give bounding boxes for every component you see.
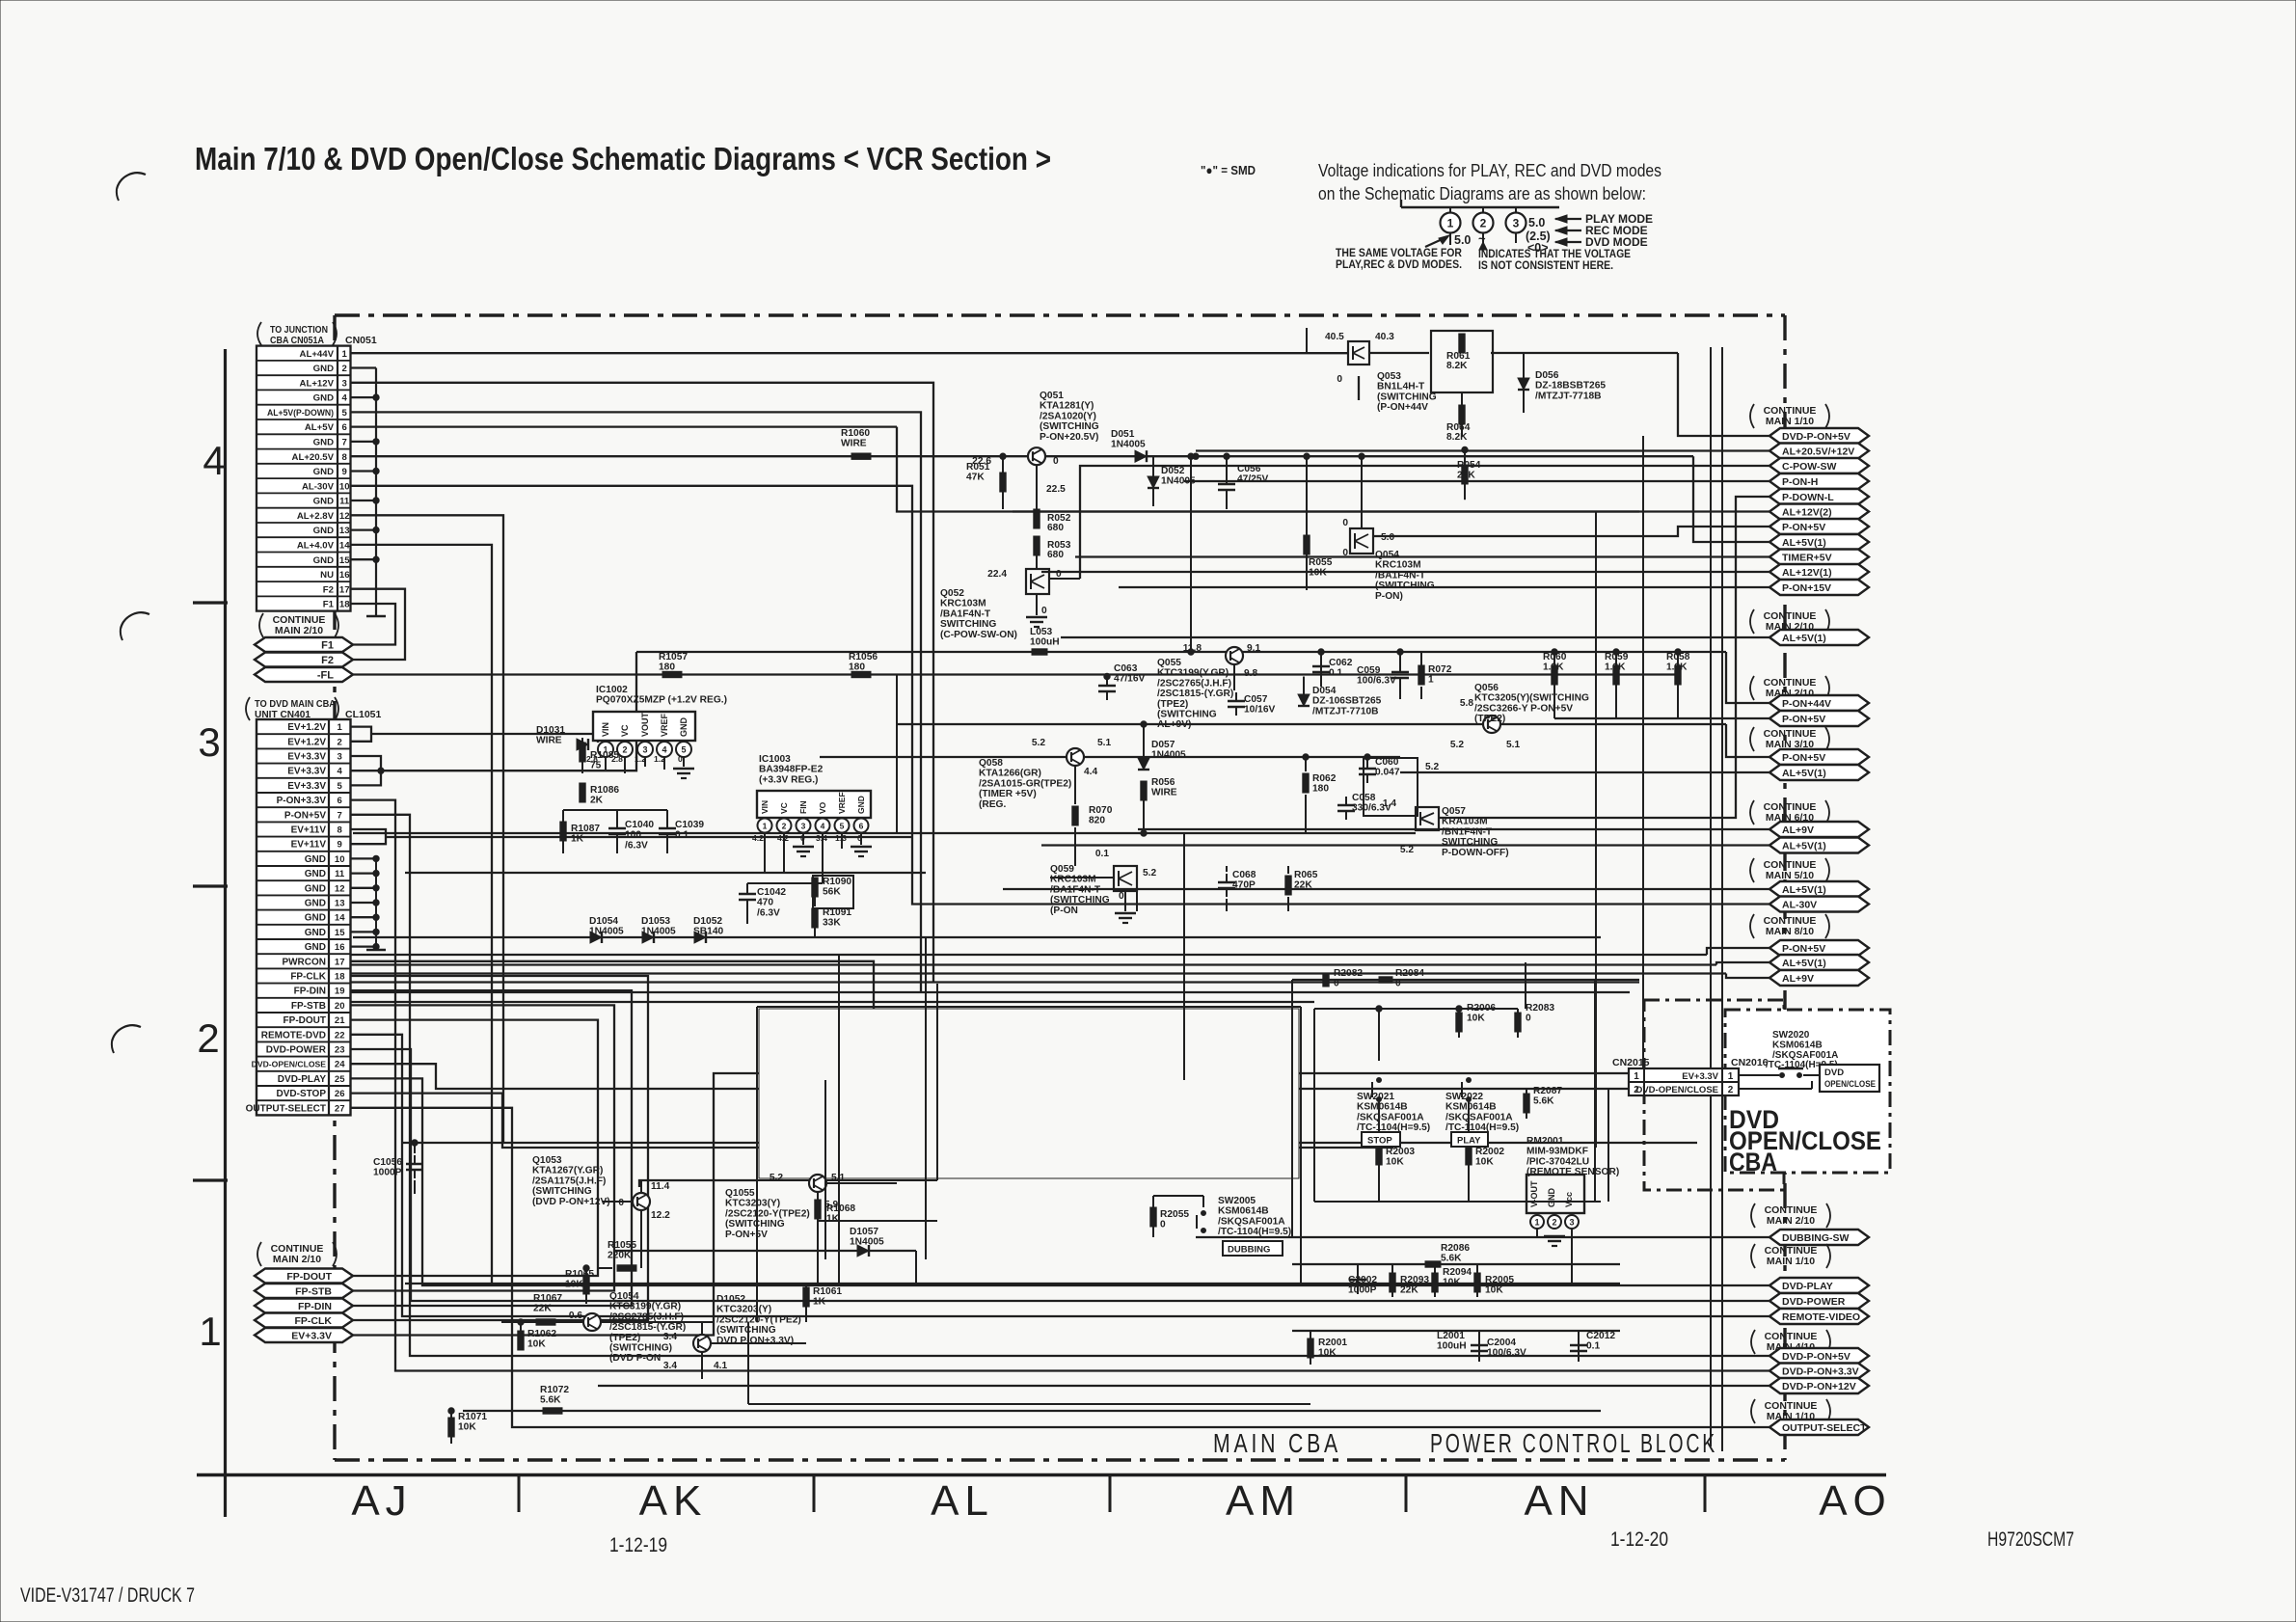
- svg-text:R1091: R1091: [823, 907, 851, 918]
- svg-text:3: 3: [1513, 217, 1520, 230]
- svg-text:22.5: 22.5: [1046, 484, 1066, 495]
- svg-text:/SKQSAF001A: /SKQSAF001A: [1357, 1112, 1424, 1122]
- svg-text:PLAY: PLAY: [1457, 1136, 1481, 1147]
- svg-text:KRA103M: KRA103M: [1442, 817, 1488, 827]
- svg-text:CBA: CBA: [1729, 1148, 1777, 1176]
- svg-text:C1040: C1040: [625, 820, 654, 830]
- svg-text:5.0: 5.0: [1454, 233, 1471, 247]
- svg-text:5: 5: [342, 408, 348, 419]
- svg-text:GND: GND: [313, 555, 334, 566]
- svg-text:1N4005: 1N4005: [1111, 440, 1146, 450]
- svg-text:C056: C056: [1237, 464, 1261, 474]
- svg-text:SW2021: SW2021: [1357, 1092, 1394, 1102]
- svg-text:AL+4.0V: AL+4.0V: [297, 541, 335, 552]
- svg-text:GND: GND: [305, 913, 326, 924]
- svg-text:OUTPUT-SELECT: OUTPUT-SELECT: [246, 1103, 326, 1114]
- svg-text:Main 7/10 & DVD Open/Close Sch: Main 7/10 & DVD Open/Close Schematic Dia…: [195, 141, 1051, 176]
- svg-text:8.2K: 8.2K: [1446, 432, 1468, 443]
- svg-text:AJ: AJ: [351, 1477, 412, 1525]
- svg-text:27: 27: [335, 1103, 345, 1114]
- svg-text:AL+5V: AL+5V: [305, 422, 335, 433]
- svg-text:C058: C058: [1352, 793, 1376, 803]
- svg-text:1K: 1K: [826, 1214, 840, 1225]
- svg-text:12.2: 12.2: [651, 1210, 670, 1221]
- svg-text:5.2: 5.2: [1425, 762, 1439, 772]
- svg-text:DVD-P-ON+3.3V: DVD-P-ON+3.3V: [1782, 1366, 1859, 1378]
- svg-text:6: 6: [338, 796, 342, 806]
- svg-text:820: 820: [1089, 816, 1105, 826]
- svg-text:EV+3.3V: EV+3.3V: [287, 752, 326, 763]
- svg-text:P-ON): P-ON): [1375, 591, 1403, 602]
- svg-text:KSM0614B: KSM0614B: [1772, 1041, 1823, 1051]
- svg-text:DVD-POWER: DVD-POWER: [1782, 1296, 1846, 1308]
- svg-text:56K: 56K: [823, 887, 841, 898]
- svg-text:1N4005: 1N4005: [641, 927, 676, 937]
- svg-text:1.2K: 1.2K: [1605, 662, 1626, 673]
- svg-text:AL: AL: [931, 1477, 994, 1525]
- svg-text:MAIN CBA: MAIN CBA: [1213, 1428, 1341, 1458]
- svg-text:14: 14: [339, 541, 350, 552]
- svg-text:R1057: R1057: [659, 652, 688, 662]
- svg-text:P-ON+5V: P-ON+5V: [1782, 943, 1825, 955]
- svg-text:9.8: 9.8: [1244, 668, 1257, 679]
- svg-text:(DVD P-ON: (DVD P-ON: [609, 1353, 661, 1364]
- svg-text:AL+2.8V: AL+2.8V: [297, 511, 335, 522]
- svg-text:6: 6: [859, 822, 864, 831]
- svg-text:GND: GND: [313, 497, 334, 507]
- svg-text:5.6K: 5.6K: [1533, 1096, 1554, 1107]
- svg-text:16: 16: [339, 570, 350, 581]
- svg-text:6: 6: [342, 422, 347, 433]
- svg-text:P-ON+5V: P-ON+5V: [725, 1230, 768, 1240]
- svg-text:1000P: 1000P: [1348, 1285, 1377, 1296]
- svg-text:100uH: 100uH: [1437, 1341, 1467, 1352]
- svg-text:R1060: R1060: [841, 428, 870, 439]
- svg-text:KRC103M: KRC103M: [940, 599, 986, 609]
- svg-text:WIRE: WIRE: [841, 439, 867, 449]
- svg-text:R1061: R1061: [813, 1286, 842, 1297]
- svg-text:GND: GND: [313, 393, 334, 404]
- svg-text:KTC3205(Y)(SWITCHING: KTC3205(Y)(SWITCHING: [1474, 693, 1589, 704]
- svg-text:5.2: 5.2: [1450, 740, 1464, 750]
- svg-text:470: 470: [757, 898, 773, 908]
- svg-text:VC: VC: [620, 724, 630, 737]
- svg-text:AL+5V(1): AL+5V(1): [1782, 884, 1826, 896]
- svg-text:3.4: 3.4: [663, 1332, 677, 1342]
- svg-text:Q055: Q055: [1157, 658, 1181, 668]
- svg-text:AL+9V: AL+9V: [1782, 973, 1814, 985]
- svg-text:/TC-1104(H=9.5): /TC-1104(H=9.5): [1218, 1227, 1291, 1237]
- svg-text:KRC103M: KRC103M: [1375, 560, 1421, 571]
- svg-text:R055: R055: [1309, 557, 1333, 568]
- svg-text:GND: GND: [305, 883, 326, 894]
- svg-text:P-ON+5V: P-ON+5V: [1782, 714, 1825, 725]
- svg-text:4: 4: [821, 822, 825, 831]
- svg-text:(REG.: (REG.: [979, 799, 1006, 810]
- svg-text:REMOTE-DVD: REMOTE-DVD: [261, 1030, 326, 1041]
- svg-text:DVD-PLAY: DVD-PLAY: [1782, 1281, 1833, 1292]
- svg-text:Q056: Q056: [1474, 683, 1499, 693]
- svg-text:7: 7: [338, 810, 342, 821]
- svg-text:47/16V: 47/16V: [1114, 674, 1145, 685]
- svg-text:R1086: R1086: [590, 785, 619, 796]
- svg-text:R2083: R2083: [1526, 1003, 1554, 1014]
- svg-text:IC1003: IC1003: [759, 754, 791, 765]
- svg-text:R065: R065: [1294, 870, 1318, 880]
- svg-text:SW2022: SW2022: [1445, 1092, 1483, 1102]
- svg-text:100: 100: [625, 830, 641, 841]
- svg-text:FIN: FIN: [798, 800, 808, 814]
- svg-text:P-ON-H: P-ON-H: [1782, 476, 1818, 488]
- svg-text:9.1: 9.1: [1247, 643, 1260, 654]
- svg-text:EV+3.3V: EV+3.3V: [1682, 1071, 1718, 1082]
- svg-text:KTC3203(Y): KTC3203(Y): [716, 1305, 771, 1315]
- svg-text:0: 0: [1119, 891, 1124, 902]
- svg-text:/2SC2785(J.H.F): /2SC2785(J.H.F): [609, 1311, 684, 1322]
- svg-text:5: 5: [681, 745, 686, 755]
- svg-text:1000P: 1000P: [373, 1168, 402, 1178]
- svg-text:SW2020: SW2020: [1772, 1030, 1810, 1041]
- svg-text:D052: D052: [1161, 466, 1185, 476]
- svg-text:BA3948FP-E2: BA3948FP-E2: [759, 765, 824, 775]
- svg-text:(C-POW-SW-ON): (C-POW-SW-ON): [940, 630, 1017, 640]
- svg-text:AL+5V(1): AL+5V(1): [1782, 768, 1826, 779]
- svg-text:F1: F1: [321, 640, 334, 652]
- svg-text:26: 26: [335, 1089, 345, 1099]
- svg-text:1: 1: [338, 722, 343, 733]
- svg-text:H9720SCM7: H9720SCM7: [1987, 1528, 2074, 1551]
- svg-text:/2SA1175(J.H.F): /2SA1175(J.H.F): [532, 1176, 606, 1186]
- svg-text:0: 0: [1342, 548, 1348, 558]
- svg-text:C2004: C2004: [1487, 1338, 1516, 1348]
- svg-text:AL+12V(2): AL+12V(2): [1782, 507, 1832, 519]
- svg-text:DUBBING: DUBBING: [1228, 1245, 1270, 1256]
- svg-text:47K: 47K: [966, 473, 985, 483]
- svg-text:AL-30V: AL-30V: [302, 481, 335, 492]
- svg-text:5.6K: 5.6K: [1441, 1254, 1462, 1264]
- svg-text:R1056: R1056: [849, 652, 878, 662]
- svg-text:DVD: DVD: [1824, 1068, 1844, 1078]
- svg-text:DVD-OPEN/CLOSE: DVD-OPEN/CLOSE: [252, 1060, 327, 1069]
- svg-text:0.1: 0.1: [1329, 668, 1342, 679]
- svg-text:11: 11: [339, 497, 350, 507]
- svg-text:WIRE: WIRE: [1151, 788, 1177, 798]
- svg-text:0: 0: [1342, 518, 1348, 528]
- svg-text:10K: 10K: [1485, 1285, 1503, 1296]
- svg-text:-FL: -FL: [317, 670, 334, 682]
- svg-text:L2001: L2001: [1437, 1331, 1465, 1341]
- svg-text:8.2K: 8.2K: [1446, 361, 1468, 371]
- svg-text:R1090: R1090: [823, 877, 851, 887]
- svg-text:FP-STB: FP-STB: [291, 1001, 326, 1012]
- svg-text:OUTPUT-SELECT: OUTPUT-SELECT: [1782, 1422, 1867, 1434]
- svg-text:25: 25: [335, 1074, 345, 1085]
- svg-text:P-ON+44V: P-ON+44V: [1782, 698, 1831, 710]
- svg-text:KTA1266(GR): KTA1266(GR): [979, 769, 1041, 779]
- svg-text:17: 17: [335, 957, 345, 967]
- svg-text:/BN1F4N-T: /BN1F4N-T: [1442, 826, 1493, 837]
- svg-text:MAIN 1/10: MAIN 1/10: [1767, 1256, 1815, 1267]
- svg-text:R2001: R2001: [1318, 1338, 1347, 1348]
- svg-text:EV+3.3V: EV+3.3V: [287, 767, 326, 777]
- svg-text:0: 0: [1041, 606, 1047, 616]
- svg-text:(SWITCHING: (SWITCHING: [1375, 581, 1435, 591]
- svg-text:/MTZJT-7718B: /MTZJT-7718B: [1535, 391, 1602, 401]
- svg-text:9: 9: [338, 840, 342, 851]
- svg-text:R070: R070: [1089, 805, 1113, 816]
- svg-text:C062: C062: [1329, 658, 1353, 668]
- svg-text:5.1: 5.1: [831, 1173, 845, 1183]
- svg-text:19: 19: [335, 987, 345, 997]
- svg-text:MAIN 8/10: MAIN 8/10: [1766, 926, 1814, 937]
- svg-text:2K: 2K: [590, 796, 604, 806]
- svg-text:R1071: R1071: [458, 1412, 487, 1422]
- svg-text:/6.3V: /6.3V: [757, 907, 780, 918]
- svg-text:1.4: 1.4: [1383, 798, 1396, 809]
- svg-text:AL+9V): AL+9V): [1157, 719, 1191, 730]
- svg-text:1K: 1K: [813, 1297, 826, 1308]
- svg-text:/2SA1020(Y): /2SA1020(Y): [1040, 411, 1096, 421]
- svg-text:Q054: Q054: [1375, 550, 1399, 560]
- svg-text:100/6.3V: 100/6.3V: [1357, 676, 1396, 687]
- svg-text:OPEN/CLOSE: OPEN/CLOSE: [1824, 1079, 1876, 1090]
- svg-text:(SWITCHING: (SWITCHING: [716, 1325, 776, 1336]
- svg-text:P-DOWN-L: P-DOWN-L: [1782, 492, 1834, 503]
- svg-text:100/6.3V: 100/6.3V: [1487, 1348, 1526, 1359]
- svg-text:22.6: 22.6: [972, 456, 991, 467]
- svg-text:KRC103M: KRC103M: [1050, 875, 1096, 885]
- svg-text:3: 3: [642, 745, 647, 755]
- svg-text:Q052: Q052: [940, 588, 964, 599]
- svg-text:Q053: Q053: [1377, 371, 1401, 382]
- svg-text:22K: 22K: [533, 1304, 552, 1314]
- svg-text:VC: VC: [779, 802, 789, 814]
- svg-text:(TPE2): (TPE2): [609, 1333, 640, 1343]
- svg-text:5.2: 5.2: [770, 1173, 783, 1183]
- svg-text:DVD-STOP: DVD-STOP: [277, 1089, 327, 1099]
- svg-text:MIM-93MDKF: MIM-93MDKF: [1526, 1147, 1588, 1157]
- svg-text:DVD-P-ON+5V: DVD-P-ON+5V: [1782, 1351, 1850, 1363]
- svg-text:R1062: R1062: [527, 1329, 556, 1339]
- svg-text:P-ON+3.3V: P-ON+3.3V: [277, 796, 327, 806]
- svg-text:EV+1.2V: EV+1.2V: [287, 722, 326, 733]
- svg-text:C063: C063: [1114, 663, 1138, 674]
- svg-text:C2012: C2012: [1586, 1331, 1615, 1341]
- svg-text:680: 680: [1047, 523, 1064, 533]
- svg-text:FP-STB: FP-STB: [295, 1286, 332, 1298]
- svg-text:RM2001: RM2001: [1526, 1136, 1564, 1147]
- svg-text:180: 180: [1312, 784, 1329, 795]
- svg-text:10K: 10K: [1467, 1014, 1485, 1024]
- svg-text:R058: R058: [1666, 652, 1690, 662]
- svg-text:Q1054: Q1054: [609, 1291, 639, 1302]
- svg-text:1K: 1K: [571, 834, 584, 845]
- svg-text:FP-DOUT: FP-DOUT: [284, 1015, 326, 1026]
- svg-text:SWITCHING: SWITCHING: [940, 619, 996, 630]
- svg-text:PQ070XZ5MZP (+1.2V REG.): PQ070XZ5MZP (+1.2V REG.): [596, 695, 727, 706]
- svg-text:/BA1F4N-T: /BA1F4N-T: [940, 608, 991, 619]
- svg-text:C-POW-SW: C-POW-SW: [1782, 461, 1836, 473]
- svg-text:/6.3V: /6.3V: [625, 840, 648, 851]
- svg-text:GND: GND: [313, 438, 334, 448]
- svg-text:R1087: R1087: [571, 824, 600, 834]
- svg-text:IS NOT CONSISTENT HERE.: IS NOT CONSISTENT HERE.: [1478, 258, 1613, 272]
- svg-text:5: 5: [840, 822, 845, 831]
- svg-text:SWITCHING: SWITCHING: [1442, 837, 1498, 848]
- svg-text:AL+9V: AL+9V: [1782, 825, 1814, 836]
- svg-text:R1072: R1072: [540, 1385, 569, 1395]
- svg-text:11.8: 11.8: [1183, 643, 1202, 654]
- svg-text:20: 20: [335, 1001, 345, 1012]
- svg-text:R072: R072: [1428, 664, 1452, 675]
- svg-text:75: 75: [590, 761, 602, 771]
- svg-text:R2005: R2005: [1485, 1275, 1514, 1285]
- svg-text:1: 1: [342, 349, 348, 360]
- svg-text:KSM0614B: KSM0614B: [1445, 1102, 1497, 1113]
- svg-text:0.1: 0.1: [1586, 1341, 1600, 1352]
- svg-text:4: 4: [338, 767, 343, 777]
- svg-text:R059: R059: [1605, 652, 1629, 662]
- svg-text:C1039: C1039: [675, 820, 704, 830]
- svg-text:(SWITCHING: (SWITCHING: [1377, 392, 1437, 402]
- svg-text:MAIN 2/10: MAIN 2/10: [1767, 1215, 1815, 1227]
- svg-text:C060: C060: [1375, 757, 1399, 768]
- svg-text:DVD-OPEN/CLOSE: DVD-OPEN/CLOSE: [1635, 1085, 1718, 1095]
- svg-text:(TPE2): (TPE2): [1474, 714, 1505, 724]
- svg-text:D1031: D1031: [536, 725, 565, 736]
- svg-text:EV+3.3V: EV+3.3V: [291, 1331, 332, 1342]
- svg-text:SB140: SB140: [693, 927, 723, 937]
- svg-text:10K: 10K: [458, 1422, 476, 1433]
- svg-text:R2086: R2086: [1441, 1243, 1470, 1254]
- svg-text:GND: GND: [313, 364, 334, 374]
- svg-text:680: 680: [1047, 550, 1064, 560]
- svg-text:0: 0: [1053, 456, 1059, 467]
- svg-text:F1: F1: [323, 600, 335, 610]
- svg-text:2: 2: [1728, 1085, 1734, 1095]
- svg-text:11.4: 11.4: [651, 1181, 670, 1192]
- svg-text:R2084: R2084: [1395, 968, 1424, 979]
- svg-text:MAIN 1/10: MAIN 1/10: [1766, 416, 1814, 427]
- svg-text:EV+11V: EV+11V: [291, 840, 327, 851]
- svg-text:KTC3203(Y): KTC3203(Y): [725, 1199, 780, 1209]
- svg-text:8: 8: [338, 825, 342, 836]
- svg-text:10K: 10K: [1386, 1157, 1404, 1168]
- svg-text:5.2: 5.2: [1400, 845, 1414, 855]
- svg-text:(SWITCHING): (SWITCHING): [609, 1343, 672, 1354]
- svg-text:"●" = SMD: "●" = SMD: [1201, 163, 1256, 177]
- svg-text:AM: AM: [1226, 1477, 1301, 1525]
- svg-text:0.1: 0.1: [675, 830, 689, 841]
- svg-text:D056: D056: [1535, 370, 1559, 381]
- svg-text:KSM0614B: KSM0614B: [1218, 1206, 1269, 1217]
- svg-text:CN051: CN051: [345, 335, 377, 346]
- svg-text:AL+5V(P-DOWN): AL+5V(P-DOWN): [267, 408, 334, 419]
- svg-text:5.0: 5.0: [1381, 532, 1394, 543]
- svg-text:AL-30V: AL-30V: [1782, 900, 1817, 911]
- svg-text:220K: 220K: [608, 1251, 632, 1261]
- svg-text:AL+12V(1): AL+12V(1): [1782, 567, 1832, 579]
- svg-text:4: 4: [662, 745, 666, 755]
- svg-text:DVD-P-ON+5V: DVD-P-ON+5V: [1782, 431, 1850, 443]
- svg-text:AK: AK: [639, 1477, 708, 1525]
- svg-text:KSM0614B: KSM0614B: [1357, 1102, 1408, 1113]
- svg-text:KTA1267(Y.GR): KTA1267(Y.GR): [532, 1166, 603, 1176]
- svg-text:R2094: R2094: [1443, 1267, 1472, 1278]
- svg-text:12: 12: [335, 883, 345, 894]
- svg-text:1: 1: [1634, 1071, 1639, 1082]
- svg-text:FP-DOUT: FP-DOUT: [286, 1271, 332, 1283]
- svg-text:15: 15: [335, 928, 345, 938]
- svg-text:24: 24: [335, 1060, 345, 1070]
- svg-text:C059: C059: [1357, 665, 1381, 676]
- svg-text:1-12-20: 1-12-20: [1610, 1528, 1668, 1551]
- svg-text:GND: GND: [1547, 1188, 1556, 1208]
- svg-text:KTA1281(Y): KTA1281(Y): [1040, 401, 1094, 412]
- svg-text:21: 21: [335, 1015, 345, 1026]
- svg-text:5.1: 5.1: [1506, 740, 1520, 750]
- svg-text:0.6: 0.6: [569, 1311, 582, 1321]
- svg-text:DVD-P-ON+12V: DVD-P-ON+12V: [1782, 1381, 1856, 1392]
- svg-text:0: 0: [678, 754, 683, 764]
- svg-text:5.2: 5.2: [1143, 868, 1156, 879]
- svg-text:P-DOWN-OFF): P-DOWN-OFF): [1442, 848, 1509, 858]
- svg-text:4.1: 4.1: [714, 1361, 727, 1371]
- svg-text:Q051: Q051: [1040, 391, 1064, 401]
- svg-text:2: 2: [782, 822, 787, 831]
- svg-text:D051: D051: [1111, 429, 1135, 440]
- svg-text:100uH: 100uH: [1030, 637, 1060, 648]
- svg-text:GND: GND: [679, 717, 689, 738]
- svg-text:5.1: 5.1: [1097, 738, 1111, 748]
- svg-text:REMOTE-VIDEO: REMOTE-VIDEO: [1782, 1311, 1860, 1323]
- svg-text:STOP: STOP: [1367, 1136, 1392, 1147]
- svg-text:180: 180: [659, 662, 675, 673]
- svg-text:10K: 10K: [1318, 1348, 1337, 1359]
- svg-text:D1057: D1057: [850, 1227, 878, 1237]
- svg-text:(SWITCHING: (SWITCHING: [1157, 710, 1217, 720]
- svg-text:22: 22: [335, 1030, 345, 1041]
- svg-text:TO JUNCTION: TO JUNCTION: [270, 325, 328, 336]
- svg-text:R056: R056: [1151, 777, 1175, 788]
- svg-text:Q1055: Q1055: [725, 1188, 755, 1199]
- svg-text:GND: GND: [305, 942, 326, 953]
- svg-text:33K: 33K: [823, 918, 841, 929]
- svg-text:R2087: R2087: [1533, 1086, 1562, 1096]
- svg-text:/2SC2120-Y(TPE2): /2SC2120-Y(TPE2): [725, 1208, 810, 1219]
- svg-text:180: 180: [849, 662, 865, 673]
- svg-text:GND: GND: [305, 854, 326, 865]
- svg-text:P-ON+5V: P-ON+5V: [1782, 522, 1825, 533]
- svg-text:/SKQSAF001A: /SKQSAF001A: [1218, 1216, 1285, 1227]
- svg-text:7: 7: [342, 438, 347, 448]
- svg-text:GND: GND: [313, 526, 334, 536]
- svg-text:0: 0: [1160, 1220, 1166, 1230]
- svg-text:(REMOTE SENSOR): (REMOTE SENSOR): [1526, 1167, 1619, 1177]
- svg-text:10K: 10K: [1309, 568, 1327, 579]
- svg-text:(DVD P-ON+12V): (DVD P-ON+12V): [532, 1197, 610, 1207]
- svg-text:V-OUT: V-OUT: [1529, 1180, 1539, 1207]
- svg-text:/MTZJT-7710B: /MTZJT-7710B: [1312, 706, 1379, 716]
- svg-text:D1052: D1052: [693, 916, 722, 927]
- svg-text:SW2005: SW2005: [1218, 1196, 1256, 1206]
- svg-text:CBA CN051A: CBA CN051A: [270, 336, 324, 346]
- svg-text:/2SC2765(J.H.F): /2SC2765(J.H.F): [1157, 678, 1231, 689]
- svg-text:3: 3: [801, 822, 806, 831]
- svg-text:10K: 10K: [1443, 1278, 1461, 1288]
- svg-text:470P: 470P: [1232, 880, 1256, 891]
- svg-text:GND: GND: [305, 869, 326, 879]
